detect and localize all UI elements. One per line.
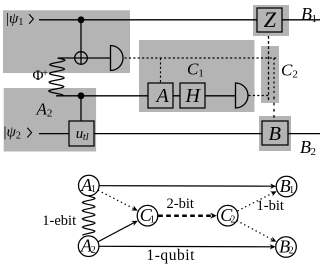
svg-text:C2: C2 (281, 61, 298, 81)
svg-text:A: A (155, 85, 170, 107)
svg-text:B2: B2 (300, 137, 316, 158)
svg-text:Φ+: Φ+ (33, 68, 49, 84)
svg-text:1-qubit: 1-qubit (146, 247, 195, 264)
svg-text:B1: B1 (301, 4, 317, 25)
svg-text:1-bit: 1-bit (257, 198, 284, 214)
svg-text:Z: Z (264, 7, 277, 32)
svg-text:B: B (269, 123, 282, 145)
svg-text:H: H (185, 85, 202, 107)
svg-text:1-ebit: 1-ebit (42, 213, 76, 229)
svg-text:2-bit: 2-bit (167, 196, 194, 212)
